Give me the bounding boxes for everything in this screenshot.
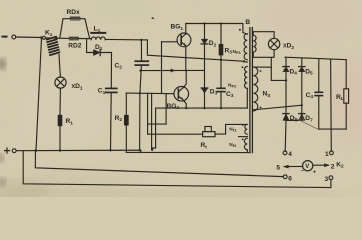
voltmeter right arrow: [313, 164, 329, 167]
arrow on rail y70: [171, 69, 175, 72]
node D2 top: [203, 22, 205, 24]
wire R1 down: [59, 126, 61, 150]
transformer winding Ns: [253, 67, 257, 111]
heater element K1 hatched block: [47, 37, 60, 55]
transformer B core: [250, 28, 253, 153]
node at hatch top: [55, 37, 57, 39]
rheostat Rt: [203, 127, 215, 137]
node D5 bottom: [301, 104, 303, 106]
node D4 anode: [285, 79, 287, 81]
polarity dot Ns bottom: [260, 107, 262, 109]
wire D2 upper: [204, 24, 206, 40]
wire output top rail: [285, 57, 346, 60]
polarity dot Np2: [242, 66, 244, 68]
lamp XD1: [55, 77, 66, 88]
wire RDx right leg: [80, 19, 89, 39]
wire hatch bottom to lamp XD1: [59, 55, 60, 78]
transformer winding Nf2: [244, 138, 247, 150]
wire Np2 bottom: [246, 88, 248, 108]
node C2 tap: [140, 39, 142, 41]
node R3 bottom on H7: [220, 59, 222, 61]
wire Ns top tap: [253, 66, 271, 68]
svg-text:6: 6: [288, 175, 292, 182]
wire mid rail y108: [156, 107, 248, 109]
node inner bus start: [35, 149, 37, 151]
svg-text:NP2: NP2: [228, 83, 237, 89]
resistor R2: [124, 115, 129, 126]
wire lamp to R1: [59, 88, 61, 115]
wire BG2 collector: [183, 71, 186, 88]
terminal 10 circle: [330, 151, 334, 155]
wire C1 down: [110, 93, 113, 150]
wire C4 bottom: [318, 96, 320, 129]
wire C2 descender: [140, 66, 142, 150]
wire input to K1: [16, 36, 42, 39]
diode D4: [283, 67, 289, 72]
resistor R3: [219, 44, 224, 56]
wire RL top: [345, 60, 347, 89]
resistor R2 wire top: [125, 93, 127, 115]
wire outer bus to terminal 3: [23, 151, 331, 188]
wire Ns bottom: [253, 105, 301, 110]
wire Rt row: [148, 133, 203, 135]
diode D2: [201, 39, 208, 44]
wire base rail y93: [126, 92, 174, 95]
wire D5 top: [301, 58, 303, 67]
resistor RDx: [70, 17, 80, 21]
polarity dot Ns top: [260, 70, 262, 72]
node center tap: [243, 60, 245, 62]
wire D1 drop: [87, 39, 94, 53]
wire RD2 to L1: [79, 38, 92, 40]
wire lamp loop: [253, 32, 274, 58]
transformer winding Np2: [245, 66, 248, 88]
svg-text:B: B: [245, 19, 250, 26]
wire center tap into windings: [244, 60, 247, 63]
node R1 bus: [59, 149, 61, 151]
scratch artifact diagonal: [294, 118, 318, 130]
wire R2 down: [125, 126, 127, 153]
node R3 top: [220, 22, 222, 24]
node junction at K1: [40, 36, 42, 38]
wire BG1 emitter: [185, 46, 187, 70]
wire D4 to D6: [285, 72, 287, 114]
resistor R1: [58, 115, 63, 126]
svg-text:5: 5: [276, 164, 280, 171]
input terminal minus dash: [3, 36, 7, 38]
svg-text:RDx: RDx: [67, 9, 81, 16]
wire D5 to D7: [301, 72, 303, 114]
transistor BG1: [177, 33, 191, 47]
terminal 6 circle: [283, 175, 287, 179]
svg-text:NP1: NP1: [233, 49, 242, 55]
voltmeter left arrow: [283, 165, 302, 168]
wire BG1 base: [162, 41, 178, 43]
wire D2 to D3: [204, 44, 206, 88]
wire D4 top: [285, 57, 287, 66]
wire mid rail left end: [153, 108, 156, 150]
wire lower bus: [16, 150, 141, 152]
wire Nf mid tap: [239, 136, 248, 138]
capacitor C3: [217, 88, 225, 91]
wire L1 to C2 corner: [105, 38, 147, 41]
capacitor C4: [315, 92, 322, 95]
polarity dot Nf2: [242, 139, 244, 141]
svg-text:1: 1: [325, 151, 329, 158]
switch K1 contact circle: [42, 36, 45, 39]
diode D1: [94, 49, 101, 55]
wire node to RD2: [57, 37, 69, 39]
wire main corner to center tap H7: [147, 40, 244, 61]
svg-text:V: V: [305, 164, 309, 170]
diode D5: [299, 67, 305, 72]
wire Ns top riser: [271, 57, 286, 80]
terminal 3 circle: [329, 176, 333, 180]
svg-text:RD2: RD2: [68, 42, 82, 49]
wire BG1 collector: [185, 24, 187, 34]
svg-text:4: 4: [288, 151, 292, 158]
bottom plus terminal: [5, 148, 10, 153]
wire inner bus to terminal 6: [35, 151, 283, 177]
wire C4 top: [318, 59, 320, 92]
diode D3: [201, 88, 208, 93]
wire D6 to terminal 4: [284, 120, 287, 151]
svg-text:Nf2: Nf2: [229, 142, 237, 148]
wire bottom rail: [126, 151, 250, 153]
wire R3 to C3: [220, 55, 222, 87]
voltmeter V: [303, 161, 313, 171]
lamp winding: [253, 35, 256, 52]
wire R3 top: [220, 24, 222, 44]
polarity dot Nf1: [242, 124, 244, 126]
polarity dot Np1: [239, 29, 241, 31]
diode D6: [283, 114, 289, 121]
node rail70 on descender: [139, 69, 141, 71]
wire stair y124: [148, 123, 167, 125]
wire D3 bottom: [204, 93, 206, 108]
stray mark: [151, 17, 154, 19]
diode D7: [299, 114, 305, 121]
lamp XD2: [268, 38, 279, 49]
wire return rail: [319, 128, 346, 130]
inductor L1 bar: [91, 32, 105, 34]
node D3 on rail: [203, 107, 205, 109]
wire emitter rail y70: [141, 69, 205, 71]
transistor BG2: [174, 87, 189, 102]
terminal 4 circle: [283, 151, 287, 155]
transformer winding Nf1: [245, 124, 247, 134]
transformer winding Np1: [244, 34, 247, 60]
wire RDx left leg: [60, 19, 70, 38]
input terminal circle top: [12, 35, 16, 39]
wire D1 to C1: [100, 53, 111, 88]
capacitor C2: [135, 61, 148, 65]
wire Nf2 bottom: [246, 150, 248, 153]
node C2 base rail: [139, 92, 141, 94]
resistor RL: [344, 89, 349, 103]
capacitor C1: [106, 88, 117, 92]
node C2 lands: [138, 149, 140, 151]
wire BG2 emitter: [183, 100, 186, 108]
wire top rail: [186, 24, 248, 35]
svg-text:3: 3: [325, 176, 329, 183]
wire terminal 10 drop: [330, 59, 333, 151]
node left V lands: [35, 149, 37, 151]
wire stair x151: [151, 93, 153, 150]
resistor RD2: [69, 37, 79, 41]
node C3 on rail: [220, 107, 222, 109]
wire D6 D7 bottoms: [286, 114, 302, 121]
wire C3 bottom: [220, 92, 222, 108]
svg-text:2: 2: [331, 164, 335, 171]
wire RL bottom: [345, 103, 347, 129]
node BG2 emitter rail: [185, 107, 187, 109]
wire Rt to Nf1: [215, 124, 247, 134]
wire BG1 base descender: [161, 42, 163, 94]
inductor L1: [91, 37, 105, 40]
node C1 lands: [109, 149, 111, 151]
wire left branch long vertical: [36, 38, 42, 150]
wire C2 top: [140, 40, 142, 60]
svg-text:Nf1: Nf1: [229, 127, 237, 133]
wire K1 to RD2 node: [46, 37, 57, 39]
bottom terminal circle: [12, 149, 16, 153]
wire BG2 base drop: [165, 94, 167, 125]
wire stair x147: [147, 93, 149, 134]
